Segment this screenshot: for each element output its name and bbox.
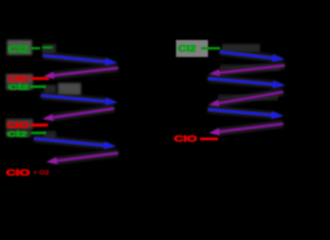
svg-text:Cl2: Cl2 [7,132,27,139]
svg-text:ClO: ClO [6,168,31,178]
svg-text:Cl2: Cl2 [8,85,29,92]
svg-text:+ O2: + O2 [33,170,49,177]
svg-text:ClO: ClO [174,134,198,144]
svg-text:ClO: ClO [7,120,30,130]
svg-text:ClO: ClO [8,74,30,84]
svg-text:Cl2: Cl2 [8,44,29,56]
svg-text:Cl2: Cl2 [178,44,196,54]
